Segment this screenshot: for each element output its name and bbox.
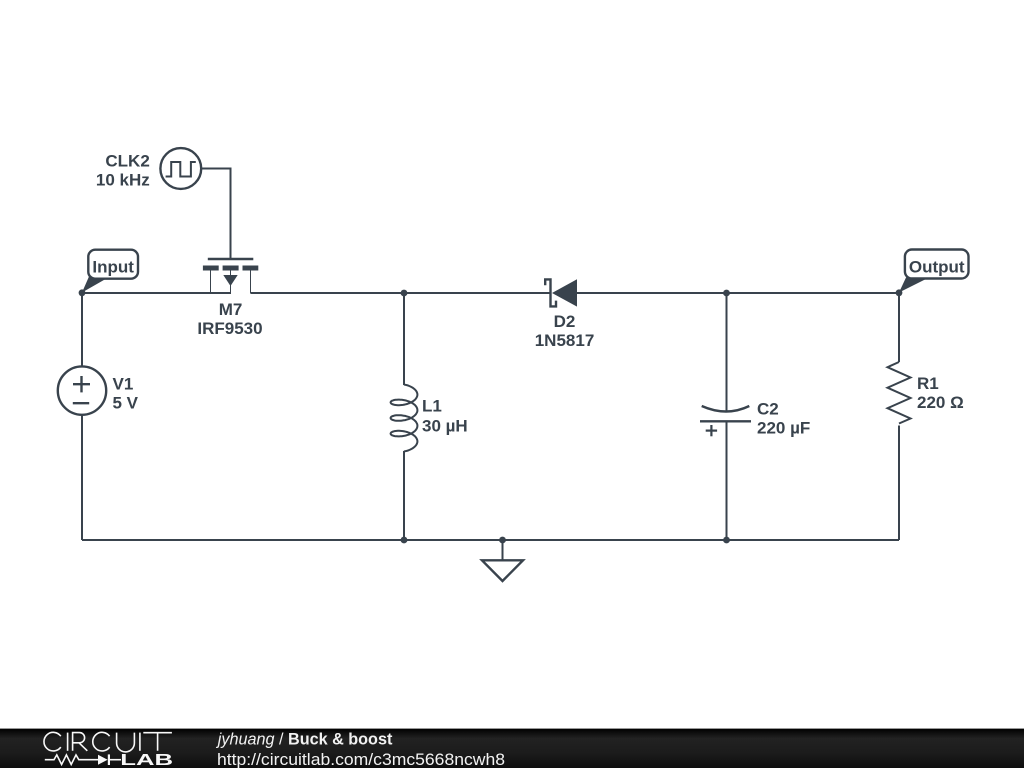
node input: [79, 289, 86, 296]
wire L1 bottom: [403, 451, 405, 540]
svg-text:http://circuitlab.com/c3mc5668: http://circuitlab.com/c3mc5668ncwh8: [217, 751, 505, 768]
svg-text:CLK2: CLK2: [105, 152, 149, 171]
bulk arrow: [223, 275, 237, 286]
wire bottom rail: [82, 539, 899, 541]
svg-text:220 µF: 220 µF: [757, 419, 810, 438]
flag Input: [82, 250, 138, 293]
footer bar: [0, 729, 1024, 768]
label M7: [197, 300, 262, 338]
svg-text:LAB: LAB: [120, 752, 173, 768]
node C2 bottom: [723, 537, 730, 544]
drain stub: [250, 270, 252, 293]
wire V1 bottom: [81, 415, 83, 540]
svg-text:Output: Output: [909, 257, 965, 276]
node L1 top: [401, 290, 408, 297]
node C2 top: [723, 290, 730, 297]
capacitor C2 (polarized): [700, 406, 751, 436]
resistor R1: [888, 362, 911, 424]
node ground: [499, 537, 506, 544]
source V1: [58, 366, 106, 414]
svg-text:IRF9530: IRF9530: [197, 319, 262, 338]
wire top rail middle (MOSFET drain to diode): [250, 292, 549, 294]
label D2 value: [535, 312, 595, 350]
svg-text:5 V: 5 V: [113, 394, 139, 413]
inductor L1: [391, 385, 418, 452]
diode D2 (Schottky): [545, 279, 556, 306]
svg-text:M7: M7: [219, 300, 243, 319]
ground: [482, 540, 523, 581]
label CLK2 value: [96, 152, 150, 190]
label C2 value: [757, 399, 810, 437]
clock source CLK2: [160, 148, 201, 189]
logo CIRCUIT (thin strokes): [44, 732, 172, 752]
wire R1 top: [898, 293, 900, 362]
logo squiggle resistor-diode: [45, 754, 121, 765]
wire C2 top: [726, 293, 728, 411]
bulk stub: [230, 270, 232, 293]
wire L1 top: [403, 293, 405, 385]
label L1 value: [422, 397, 468, 436]
gate plate: [208, 258, 254, 260]
channel bars: [203, 266, 219, 271]
source stub: [210, 270, 212, 293]
svg-text:V1: V1: [113, 374, 134, 393]
wire C2 bottom: [726, 421, 728, 540]
flag Output: [899, 250, 969, 293]
transistor M7 (P-MOSFET): [203, 259, 258, 293]
node output: [896, 289, 903, 296]
svg-text:1N5817: 1N5817: [535, 331, 595, 350]
svg-text:R1: R1: [917, 374, 939, 393]
wire top rail left (input node to MOSFET): [82, 292, 231, 294]
svg-text:10 kHz: 10 kHz: [96, 171, 150, 190]
wire top rail right (diode to output node): [577, 292, 899, 294]
wire CLK2 to gate: [201, 169, 230, 259]
wire V1 top: [81, 293, 83, 367]
svg-text:Input: Input: [92, 258, 134, 277]
svg-text:220 Ω: 220 Ω: [917, 393, 964, 412]
svg-text:30 µH: 30 µH: [422, 417, 468, 436]
svg-text:L1: L1: [422, 397, 442, 416]
svg-text:jyhuang / Buck & boost: jyhuang / Buck & boost: [216, 731, 393, 749]
svg-text:D2: D2: [554, 312, 576, 331]
label V1 value: [113, 374, 139, 412]
svg-text:C2: C2: [757, 399, 779, 418]
node L1 bottom: [401, 537, 408, 544]
label R1 value: [917, 374, 964, 412]
wire R1 bottom: [898, 426, 900, 541]
